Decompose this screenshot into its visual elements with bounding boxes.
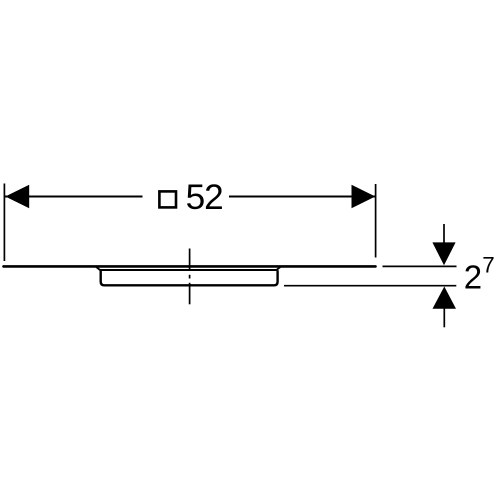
arrow tail top: [443, 224, 445, 243]
arrowhead up: [433, 287, 457, 309]
arrow tail bottom: [443, 308, 445, 327]
extension line bottom (height datum): [284, 285, 456, 287]
extension line left (width datum): [3, 184, 5, 262]
extension line right (width datum): [375, 184, 377, 258]
centre line of drain channel, upper dash: [189, 249, 191, 271]
svg-text:52: 52: [186, 178, 223, 217]
arrowhead down: [432, 242, 455, 265]
dimension line width, right segment: [229, 196, 376, 198]
centre line of drain channel, lower dash: [189, 283, 191, 305]
arrowhead left: [5, 185, 29, 209]
centre line of drain channel, centre dot: [189, 275, 191, 279]
svg-text:7: 7: [482, 253, 494, 278]
plate top surface: [4, 265, 376, 268]
cover top edge with end bevels: [96, 266, 282, 270]
channel outline (recessed drain body): [101, 270, 278, 285]
extension line top (height datum): [383, 265, 457, 267]
svg-text:2: 2: [464, 258, 482, 295]
arrowhead right: [352, 185, 376, 209]
square symbol of dimension label: [159, 191, 176, 207]
dimension line width, left segment: [4, 196, 142, 198]
